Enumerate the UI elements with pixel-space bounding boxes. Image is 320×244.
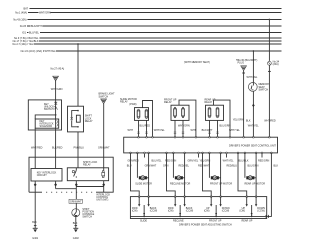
- svg-text:RELAY: RELAY: [205, 101, 213, 104]
- wires below relay box 2: [174, 120, 176, 137]
- svg-text:WHT/YEL: WHT/YEL: [247, 76, 258, 79]
- wire from brake switch down to interlock unit: [103, 104, 105, 158]
- switch group 4 rear up: [239, 197, 265, 223]
- interlock control unit label: [96, 193, 110, 201]
- svg-text:RED/YEL: RED/YEL: [179, 165, 190, 168]
- svg-text:BLU/GRN: BLU/GRN: [220, 125, 231, 128]
- svg-text:(CW): (CW): [239, 210, 245, 213]
- stub pins on control unit bottom: [144, 152, 263, 157]
- shift position console switch: [72, 208, 95, 219]
- key switch contact marks: [54, 102, 57, 109]
- svg-text:No.1 (40A): No.1 (40A): [15, 12, 27, 15]
- wire from right triangle down to control unit: [243, 71, 245, 138]
- wire bus line 1 BAT: [23, 8, 281, 11]
- svg-text:WHT/RED: WHT/RED: [31, 147, 43, 150]
- svg-text:SWITCH: SWITCH: [44, 108, 54, 111]
- svg-text:BLK: BLK: [32, 221, 37, 224]
- svg-text:RECLINE MOTOR: RECLINE MOTOR: [170, 183, 191, 186]
- svg-text:WHT: WHT: [127, 129, 133, 132]
- svg-text:BLU: BLU: [127, 165, 132, 168]
- wire to ground left: [34, 192, 36, 228]
- wire jog motor 2: [167, 153, 176, 197]
- wire from bus line 3 down to circuit breaker: [268, 20, 270, 61]
- wires below relay box 3: [209, 120, 211, 137]
- motor 2 recline motor: [170, 153, 191, 197]
- svg-text:DOWN: DOWN: [257, 207, 265, 210]
- ground G401: [32, 228, 39, 240]
- boxed wire label GRN/WHT: [69, 199, 82, 203]
- wire bus line 4 IG1 BLK/WHT: [20, 24, 282, 28]
- svg-text:(FWD): (FWD): [129, 103, 136, 106]
- svg-text:WHT/YEL: WHT/YEL: [154, 129, 165, 132]
- svg-text:FWD: FWD: [132, 207, 138, 210]
- control unit bottom pins: [130, 152, 273, 154]
- wire through key box: [55, 100, 57, 130]
- svg-text:BLU/YEL: BLU/YEL: [152, 159, 163, 162]
- svg-text:RELAY: RELAY: [120, 101, 128, 104]
- junction diamond on memory switch wire: [252, 104, 255, 107]
- key interlock solenoid box: [35, 119, 59, 128]
- wire from bus line 9 down to memory switch: [252, 51, 254, 82]
- svg-text:(CCW): (CCW): [150, 210, 158, 213]
- junction diamond 1: [34, 183, 37, 186]
- junction diamond 3: [75, 183, 78, 186]
- svg-text:DRIVER'S POWER SEAT ADJUSTING: DRIVER'S POWER SEAT ADJUSTING SWITCH: [179, 223, 232, 226]
- svg-text:WHT/YEL: WHT/YEL: [248, 125, 259, 128]
- wire bus line 8 No.2-7 (10A): [13, 42, 282, 46]
- svg-text:GRN: GRN: [163, 165, 169, 168]
- wire from interlock unit to shift position switch: [75, 192, 77, 209]
- svg-text:SOLENOID: SOLENOID: [40, 125, 53, 128]
- diode D1: [266, 215, 269, 218]
- motor 4 rear up motor: [245, 153, 266, 197]
- relay box 3 (rear up relay): [205, 99, 231, 138]
- svg-text:WHT: WHT: [191, 129, 197, 132]
- motor 3 front up motor: [209, 153, 232, 197]
- wire bus line 9 No.1-5 ACC: [21, 49, 282, 53]
- wire bus line 7 No.17 (7.5A): [13, 39, 282, 43]
- svg-text:RELAY: RELAY: [85, 120, 93, 123]
- svg-text:No.2-7 (10A): No.2-7 (10A): [13, 43, 27, 46]
- svg-text:(CW): (CW): [132, 210, 138, 213]
- wires inside interlock unit: [34, 157, 36, 168]
- key interlock circuit sub box: [31, 169, 62, 182]
- svg-text:REAR UP: REAR UP: [242, 220, 253, 223]
- switch group 1 slide: [132, 197, 158, 223]
- wire from bus line 8 down to shift lock relay box: [77, 44, 79, 106]
- svg-text:BLU/RED: BLU/RED: [140, 125, 151, 128]
- solenoid coil marks: [56, 120, 59, 126]
- svg-text:SWITCH: SWITCH: [99, 95, 109, 98]
- relay box 2 (recline relay): [164, 99, 196, 138]
- svg-text:WHT/YEL: WHT/YEL: [229, 129, 240, 132]
- svg-text:PLUG: PLUG: [238, 62, 245, 65]
- wire solenoid output left: [34, 128, 36, 157]
- svg-text:(CW): (CW): [168, 210, 174, 213]
- wire link A: [56, 188, 77, 190]
- node junction dot in key box: [55, 114, 57, 116]
- svg-text:FRONT UP: FRONT UP: [209, 220, 222, 223]
- node bus tap at x253.4 y51: [253, 50, 255, 52]
- ground G402: [73, 228, 80, 240]
- svg-text:BLK: BLK: [73, 222, 78, 225]
- svg-text:YEL/GRN: YEL/GRN: [200, 159, 211, 162]
- svg-text:YEL: YEL: [29, 43, 34, 46]
- wire from breaker down to control unit: [268, 65, 270, 137]
- wire bus line 3 No.43 (10A): [13, 19, 281, 22]
- svg-text:RED/BLU: RED/BLU: [227, 165, 238, 168]
- svg-text:BLU/BLK: BLU/BLK: [239, 159, 249, 162]
- svg-text:RELAY: RELAY: [164, 101, 172, 104]
- wire L from junction to solenoid box: [35, 115, 55, 119]
- control unit top pins: [138, 136, 271, 138]
- svg-text:WHT/YEL: WHT/YEL: [223, 159, 234, 162]
- svg-text:IG1 B: IG1 B: [20, 25, 27, 28]
- svg-text:SLIDE: SLIDE: [140, 220, 147, 223]
- wire from relay box down to interlock unit: [77, 132, 79, 157]
- svg-text:DOWN: DOWN: [222, 207, 230, 210]
- svg-text:WHT/RED: WHT/RED: [264, 120, 276, 123]
- svg-text:GRN/WHT: GRN/WHT: [145, 165, 157, 168]
- svg-text:RED/GRN: RED/GRN: [258, 159, 269, 162]
- svg-text:WHT/GRN: WHT/GRN: [178, 125, 190, 128]
- svg-text:(WITH MEMORY SEAT): (WITH MEMORY SEAT): [184, 61, 210, 64]
- key interlock switch text: [44, 103, 55, 111]
- svg-text:(CCW): (CCW): [222, 210, 230, 213]
- svg-text:DRIVER'S POWER SEAT CONTROL UN: DRIVER'S POWER SEAT CONTROL UNIT: [229, 144, 276, 147]
- svg-text:BACK: BACK: [150, 207, 157, 210]
- key interlock unit outer box: [28, 100, 61, 130]
- memory seat switch: [248, 83, 269, 92]
- junction diamond 4: [102, 183, 105, 186]
- wire jog motor 4: [238, 153, 247, 197]
- shift lock relay sub box: [67, 161, 108, 181]
- output wires with junction diamonds: [34, 181, 36, 192]
- wire bus line 2 No.1 (40A): [15, 11, 281, 15]
- svg-text:(CCW): (CCW): [257, 210, 265, 213]
- wire bus line 6 No.9 (7.5A): [14, 36, 281, 40]
- svg-text:YEL/GRN: YEL/GRN: [233, 119, 244, 122]
- svg-text:BLK/WHT: BLK/WHT: [202, 129, 213, 132]
- wire from memory switch down to control unit: [252, 91, 254, 137]
- wire to ground right: [75, 217, 77, 229]
- svg-text:UP: UP: [206, 207, 210, 210]
- svg-text:PNK/BLU: PNK/BLU: [74, 147, 85, 150]
- svg-text:FWD: FWD: [168, 207, 174, 210]
- driver's power seat control unit box: [124, 137, 278, 153]
- shift lock relay box with diode: [68, 106, 93, 132]
- svg-text:RELAY: RELAY: [83, 164, 91, 167]
- svg-text:BLK: BLK: [274, 165, 279, 168]
- svg-text:(20A): (20A): [273, 63, 279, 66]
- svg-text:WHT/YEL: WHT/YEL: [45, 50, 56, 53]
- svg-text:BLU/GRN: BLU/GRN: [248, 165, 259, 168]
- connector C427 triangle (fuse feed, left): [51, 68, 65, 81]
- svg-text:BLK: BLK: [246, 120, 251, 123]
- driver's power seat adjusting switch box: [130, 197, 266, 219]
- wire label row 1 below control unit: [128, 159, 270, 162]
- svg-text:(CW): (CW): [204, 210, 210, 213]
- svg-text:RED/WHT: RED/WHT: [198, 165, 210, 168]
- svg-text:REAR UP MOTOR: REAR UP MOTOR: [245, 183, 266, 186]
- svg-text:G401: G401: [32, 237, 39, 240]
- svg-text:SWITCH: SWITCH: [259, 89, 269, 92]
- connector tick: [268, 70, 271, 72]
- svg-text:GRN/WHT: GRN/WHT: [98, 147, 110, 150]
- relay box 1 (slide relay): [120, 98, 153, 137]
- svg-text:No.43 (10A): No.43 (10A): [13, 19, 26, 22]
- brake light switch connector triangle: [99, 93, 116, 104]
- svg-text:BAT: BAT: [23, 8, 28, 11]
- svg-text:BACK: BACK: [186, 207, 193, 210]
- svg-text:SLIDE MOTOR: SLIDE MOTOR: [135, 183, 152, 186]
- svg-text:BLK/WHT: BLK/WHT: [31, 25, 42, 28]
- switch box top pins: [138, 196, 257, 198]
- junction diamond 2: [54, 183, 57, 186]
- svg-text:IG1: IG1: [22, 32, 27, 35]
- svg-text:RECLINE: RECLINE: [173, 220, 184, 223]
- wire jog motor 3: [203, 153, 212, 197]
- switch group 2 recline: [168, 197, 194, 223]
- wire WHT/GRN from connector to key box: [51, 81, 63, 100]
- wire bus line 5 IG1 BLU/YEL: [22, 31, 281, 35]
- svg-text:WHT/GRN: WHT/GRN: [39, 12, 51, 15]
- svg-text:UNIT (M/T): UNIT (M/T): [96, 198, 108, 201]
- inline connector marks row: [137, 132, 218, 134]
- svg-text:(CCW): (CCW): [186, 210, 194, 213]
- circuit breaker No.34: [268, 60, 280, 66]
- node bus tap at x78 y44: [77, 43, 79, 45]
- interlock control unit box: [29, 157, 113, 192]
- wire link B: [76, 186, 103, 188]
- svg-text:UP: UP: [242, 207, 246, 210]
- svg-text:SWITCH: SWITCH: [82, 215, 92, 218]
- wire jog motor 1: [131, 153, 140, 197]
- svg-text:GRN/YEL: GRN/YEL: [188, 159, 199, 162]
- svg-text:GRN/WHT: GRN/WHT: [70, 200, 82, 203]
- svg-text:CIRCUIT: CIRCUIT: [37, 174, 47, 177]
- diode wire from rear switch to control unit: [130, 153, 271, 218]
- svg-text:No.27 (40 A): No.27 (40 A): [51, 68, 65, 71]
- wire key switch output: [55, 130, 57, 157]
- wire label row 2 below control unit: [127, 165, 279, 168]
- svg-text:BLU/YEL: BLU/YEL: [29, 32, 40, 35]
- wires below relay box 1: [138, 120, 140, 137]
- svg-text:BLK/RED: BLK/RED: [52, 147, 63, 150]
- switch group 3 front up: [204, 197, 230, 223]
- connector triangle (seat belt feed, right): [238, 59, 258, 71]
- svg-text:No.1-5 (ACC) (15A): No.1-5 (ACC) (15A): [21, 50, 43, 53]
- svg-text:FRONT UP MOTOR: FRONT UP MOTOR: [210, 183, 232, 186]
- svg-text:G402: G402: [73, 237, 80, 240]
- motor 1 slide motor: [135, 153, 152, 197]
- svg-text:WHT/GRN: WHT/GRN: [51, 88, 63, 91]
